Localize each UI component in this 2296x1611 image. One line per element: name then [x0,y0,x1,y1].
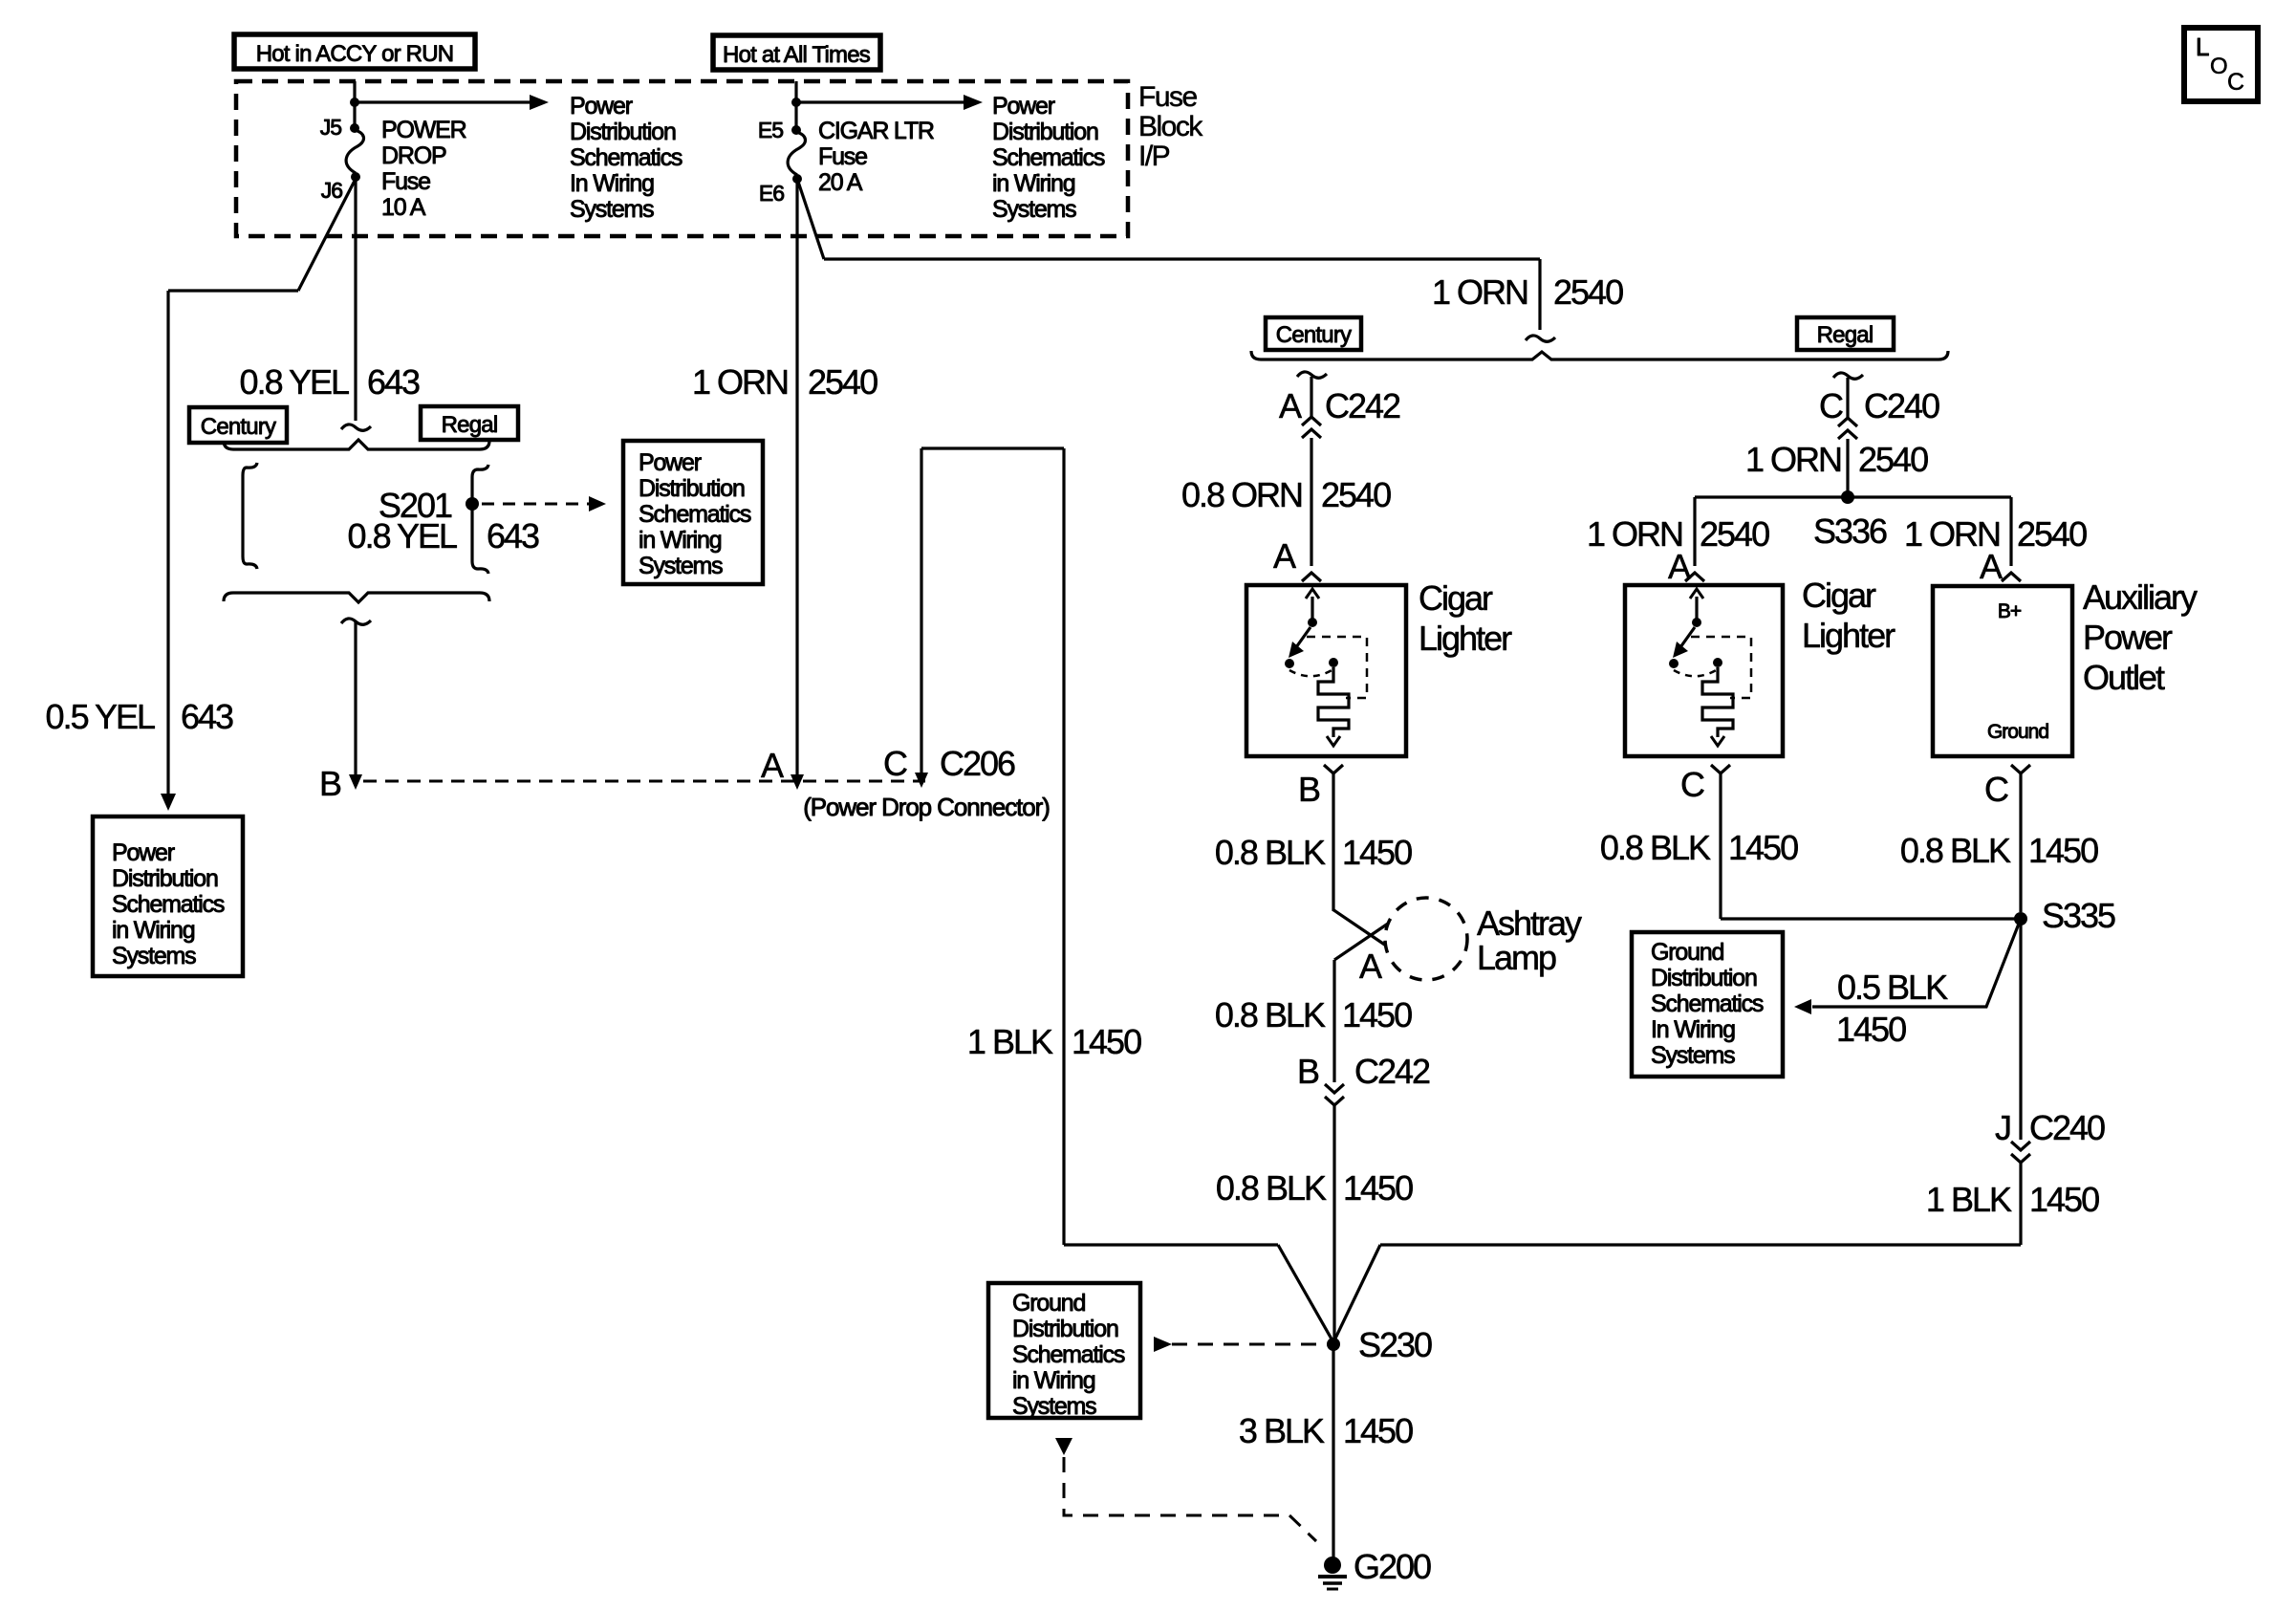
svg-text:Ground: Ground [1651,939,1723,966]
svg-text:0.5 YEL: 0.5 YEL [46,697,155,736]
arrowhead into Power Distribution note box [161,794,176,811]
Century wire segment bracket [243,463,257,569]
wire below C240 down and across to S230 [2019,1163,2022,1245]
title box: Hot in ACCY or RUN [234,34,475,69]
svg-text:J: J [1995,1108,2010,1147]
wire 1 ORN 2540 down to S336 [1846,439,1849,491]
svg-text:C: C [2227,69,2244,96]
svg-text:2540: 2540 [1321,475,1391,514]
wire hook below brace (Regal) [1833,373,1863,379]
svg-text:643: 643 [487,516,539,555]
cigar lighter 1 box [1246,585,1406,756]
dashed reference path from note to G200 [1055,1438,1072,1455]
cigar lighter 1 internal: dashed travel arc [1289,669,1333,676]
svg-text:B+: B+ [1998,600,2022,622]
svg-text:10 A: 10 A [381,194,426,221]
svg-text:C242: C242 [1354,1052,1430,1091]
cigar lighter 2 internal: switch arm arrow [1680,627,1695,647]
svg-text:Power: Power [2083,618,2173,657]
svg-text:Schematics: Schematics [1651,991,1764,1017]
wire S336 horizontal distribution [1695,495,2011,498]
fuse CIGAR LTR 20A element [788,132,805,175]
svg-text:S335: S335 [2042,896,2115,935]
note box Power Distribution Schematics in Wiring Systems (S201) [623,441,763,584]
note box Power Distribution Schematics in Wiring Systems (bottom left) [93,816,243,976]
svg-text:POWER: POWER [381,117,466,143]
svg-text:(Power Drop Connector): (Power Drop Connector) [803,793,1050,821]
cigar lighter 2 box [1625,585,1783,756]
wire 1 BLK 1450 long return down [1062,448,1065,1245]
ashtray lamp dashed circle [1385,898,1467,980]
Regal variant box (right) [1797,317,1894,350]
wire 0.8 BLK 1450 down to S230 [1332,1105,1335,1340]
svg-text:Block: Block [1138,111,1203,142]
svg-text:Auxiliary: Auxiliary [2083,577,2198,617]
svg-text:0.8 BLK: 0.8 BLK [1600,828,1711,867]
svg-text:Lighter: Lighter [1802,616,1895,655]
cigar lighter 2 internal: heating element [1702,667,1733,737]
svg-text:643: 643 [367,362,420,402]
svg-text:Distribution: Distribution [112,865,218,892]
svg-text:Distribution: Distribution [1651,965,1757,991]
wire 3 BLK 1450 from S230 to G200 [1332,1344,1334,1560]
svg-text:Power: Power [992,93,1055,120]
svg-text:0.8 BLK: 0.8 BLK [1216,1168,1327,1208]
svg-text:3 BLK: 3 BLK [1239,1411,1325,1450]
dashed reference arrow from ground note to S230 [1154,1337,1172,1352]
svg-text:1450: 1450 [1342,833,1412,872]
wire right branch down to aux outlet [2009,497,2012,566]
svg-text:Hot at All Times: Hot at All Times [723,42,871,68]
svg-text:Distribution: Distribution [1012,1316,1118,1342]
wire E6 diagonal to top feed [797,179,824,259]
cigar lighter 2 internal: supply arrow [1695,597,1698,621]
svg-text:0.8 BLK: 0.8 BLK [1215,833,1326,872]
cigar lighter 1 internal: heating element [1318,667,1349,737]
svg-text:S230: S230 [1358,1325,1432,1364]
svg-text:Power: Power [112,839,175,866]
wire 0.8 BLK down to C242 pin B [1332,960,1335,1082]
pin J6 [351,172,360,182]
splice S230 [1327,1338,1340,1351]
wire 1 BLK 1450 down to C240 pin J [2019,919,2022,1140]
svg-text:Lighter: Lighter [1419,619,1512,658]
cigar lighter 2 internal: contact dots [1669,659,1679,668]
svg-text:Power: Power [570,93,633,120]
svg-text:1450: 1450 [1072,1022,1141,1061]
splice S336 [1841,490,1854,504]
Century variant box (right) [1266,317,1361,350]
wire hook below brace (Century) [1297,372,1327,378]
wire hook below brace [341,619,371,624]
svg-text:Ground: Ground [1987,721,2048,743]
connector C242 pin B chevrons [1325,1084,1344,1093]
dashed reference arrow from S201 [482,503,589,506]
ashtray lamp tap X crossing [1332,909,1386,946]
svg-text:DROP: DROP [381,142,446,169]
svg-text:2540: 2540 [808,362,877,402]
svg-text:Power: Power [639,449,702,476]
svg-text:Distribution: Distribution [639,475,745,502]
svg-text:A: A [1273,536,1296,576]
svg-text:S336: S336 [1813,512,1887,551]
wire 0.5 YEL 643 down to note box [166,291,169,805]
wire 0.8 BLK 1450 from aux outlet ground [2019,773,2022,912]
pin E6 [792,174,802,184]
connector C206 dashed line [363,780,925,783]
svg-text:Hot in ACCY or RUN: Hot in ACCY or RUN [256,41,454,67]
LOC reference box [2184,28,2258,101]
wire 1 ORN 2540 from E6 down to C206 pin A [795,179,798,778]
wire 0.8 ORN 2540 down to cigar lighter [1310,438,1312,566]
svg-text:0.8 YEL: 0.8 YEL [348,516,457,555]
svg-text:G200: G200 [1354,1547,1431,1586]
svg-text:1 BLK: 1 BLK [967,1022,1053,1061]
svg-text:Schematics: Schematics [1012,1341,1125,1368]
cigar lighter 2 internal: dashed travel arc [1674,669,1718,676]
wire J6 diagonal to left drop [298,179,356,291]
svg-text:In Wiring: In Wiring [570,170,654,197]
cigar lighter 2 internal: dashed element housing [1691,637,1751,698]
svg-text:in Wiring: in Wiring [992,170,1075,197]
wire 1 ORN 2540 feed across top [824,257,1540,260]
svg-text:1 ORN: 1 ORN [1745,440,1841,479]
cigar lighter 1 internal: dashed element housing [1307,637,1367,698]
svg-text:E6: E6 [759,181,784,206]
svg-text:0.8 BLK: 0.8 BLK [1215,995,1326,1034]
wire end hook above right brace [1526,336,1555,341]
svg-text:1 BLK: 1 BLK [1926,1180,2012,1219]
svg-text:Fuse: Fuse [818,143,867,170]
svg-text:Schematics: Schematics [570,144,682,171]
svg-text:Lamp: Lamp [1477,938,1556,977]
svg-text:Systems: Systems [639,553,723,579]
arrow wire to Power Distribution note (right) [796,100,964,103]
wire from Hot at All Times down into fuse block [794,81,797,102]
wire C206 return across to S230 [1064,1243,1278,1246]
svg-text:1450: 1450 [2028,831,2098,870]
svg-text:Regal: Regal [1817,322,1874,348]
wire from Hot in ACCY down into fuse block [353,81,356,102]
svg-text:1450: 1450 [1343,1411,1413,1450]
svg-text:Schematics: Schematics [992,144,1105,171]
svg-text:2540: 2540 [1700,514,1769,554]
svg-text:Cigar: Cigar [1802,576,1876,615]
svg-text:Distribution: Distribution [992,119,1098,145]
svg-text:I/P: I/P [1138,141,1170,172]
svg-text:Distribution: Distribution [570,119,676,145]
svg-text:0.8 BLK: 0.8 BLK [1900,831,2011,870]
svg-text:1450: 1450 [1343,1168,1413,1208]
svg-text:B: B [1297,1052,1319,1091]
wire junction to J5 [353,102,356,126]
svg-text:C: C [1819,386,1843,425]
svg-text:2540: 2540 [1858,440,1928,479]
svg-text:A: A [1980,547,2003,586]
Regal wire segment bracket with S201 [472,465,488,574]
svg-text:Systems: Systems [1651,1042,1735,1069]
svg-text:1450: 1450 [2029,1180,2099,1219]
svg-text:C: C [1680,765,1704,804]
cigar lighter 1 internal: supply arrow [1310,597,1313,621]
svg-text:Cigar: Cigar [1419,578,1493,618]
wire 0.5 BLK 1450 to ground note [1812,919,2021,1007]
svg-text:Regal: Regal [442,412,498,438]
cigar lighter 2 internal: contact dot upper [1692,618,1701,627]
svg-text:in Wiring: in Wiring [639,527,722,554]
svg-text:In Wiring: In Wiring [1651,1016,1735,1043]
svg-text:B: B [319,764,341,803]
svg-text:20 A: 20 A [818,169,863,196]
svg-text:in Wiring: in Wiring [112,917,195,944]
svg-text:Systems: Systems [992,196,1076,223]
title box: Hot at All Times [713,35,880,70]
svg-text:1 ORN: 1 ORN [1432,272,1527,312]
pin chevron into aux power outlet [2002,573,2021,581]
svg-text:A: A [1359,947,1382,986]
svg-text:E5: E5 [758,118,783,142]
svg-text:1 ORN: 1 ORN [692,362,788,402]
wire 0.8 BLK 1450 from cigar lighter 2 [1719,773,1722,919]
svg-text:J5: J5 [320,115,342,140]
svg-text:1450: 1450 [1836,1010,1906,1049]
arrowhead pin B into C206 [349,774,362,790]
svg-text:1450: 1450 [1728,828,1798,867]
pin chevron into cigar lighter 2 [1685,573,1704,581]
svg-text:J6: J6 [321,178,343,203]
wire horizontal to far left [168,289,298,292]
svg-text:O: O [2210,54,2228,79]
svg-text:C206: C206 [940,744,1015,783]
svg-text:Systems: Systems [570,196,654,223]
svg-text:Century: Century [201,414,276,440]
wire down to connector C206 pin B [354,620,357,780]
svg-text:A: A [1279,386,1302,425]
svg-text:Schematics: Schematics [112,891,225,918]
svg-text:B: B [1298,770,1320,809]
svg-text:Schematics: Schematics [639,501,751,528]
pin E5 [791,125,801,135]
pin B chevron below cigar lighter 1 [1324,765,1343,773]
splice S201 [466,497,479,511]
connector C240 pin C chevrons [1838,418,1857,426]
note box Ground Distribution Schematics in Wiring Systems (bottom) [988,1283,1140,1418]
svg-text:0.8 YEL: 0.8 YEL [240,362,349,402]
wire left branch down to cigar lighter 2 [1693,497,1696,566]
svg-text:in Wiring: in Wiring [1012,1367,1095,1394]
svg-text:1450: 1450 [1342,995,1412,1034]
splice S335 [2014,912,2027,925]
svg-text:A: A [761,746,784,785]
wire junction to E5 [794,102,797,128]
svg-text:Ground: Ground [1012,1290,1085,1317]
note box Ground Distribution Schematics In Wiring Systems (right) [1632,932,1783,1077]
svg-text:0.5 BLK: 0.5 BLK [1837,968,1948,1007]
svg-text:2540: 2540 [2017,514,2087,554]
svg-text:CIGAR LTR: CIGAR LTR [818,118,934,144]
auxiliary power outlet box [1933,586,2072,756]
svg-text:643: 643 [181,697,233,736]
svg-text:L: L [2196,33,2209,61]
options brace upper [224,440,489,449]
svg-text:C240: C240 [1864,386,1939,425]
svg-text:2540: 2540 [1553,272,1623,312]
svg-text:C: C [883,744,907,783]
corner down to Regal/Century options brace [1538,259,1541,330]
svg-text:C: C [1984,770,2008,809]
svg-text:Fuse: Fuse [1138,81,1198,113]
Century variant box (left) [189,407,287,443]
junction node [791,98,801,107]
svg-text:Ashtray: Ashtray [1477,903,1582,943]
svg-text:Outlet: Outlet [2083,658,2165,697]
wire 0.8 YEL 643 from J6 down [354,179,357,421]
pin C chevron below cigar lighter 2 [1711,765,1730,773]
pin J5 [350,123,359,133]
cigar lighter 1 internal: contact dot upper [1308,618,1317,627]
wire 0.8 BLK 1450 from pin B [1332,773,1334,910]
svg-text:Century: Century [1276,322,1352,348]
svg-text:Systems: Systems [1012,1393,1096,1420]
wire C206 pin C up and over to 1 BLK return [920,448,922,776]
junction node [350,98,359,107]
pin C chevron below aux outlet [2011,765,2030,773]
Regal variant box (left) [421,406,518,440]
svg-text:C240: C240 [2029,1108,2105,1147]
svg-text:Systems: Systems [112,943,196,969]
svg-text:0.8 ORN: 0.8 ORN [1181,475,1302,514]
options brace right section [1251,351,1948,359]
pin chevron into cigar lighter 1 [1302,573,1321,581]
options brace lower [224,593,489,602]
connector C240 pin J chevrons [2011,1142,2030,1150]
arrow wire to Power Distribution note (left) [355,100,531,103]
fuse block I/P dashed outline [236,81,1128,236]
svg-text:Fuse: Fuse [381,168,430,195]
cigar lighter 1 internal: switch arm arrow [1296,627,1310,647]
wire end hook above options brace [341,425,371,430]
cigar lighter 1 internal: contact dots [1285,659,1294,668]
fuse F POWER DROP 10A element [346,130,363,173]
svg-text:C242: C242 [1325,386,1400,425]
ground G200 [1324,1557,1341,1574]
connector C242 pin A chevrons [1302,417,1321,425]
